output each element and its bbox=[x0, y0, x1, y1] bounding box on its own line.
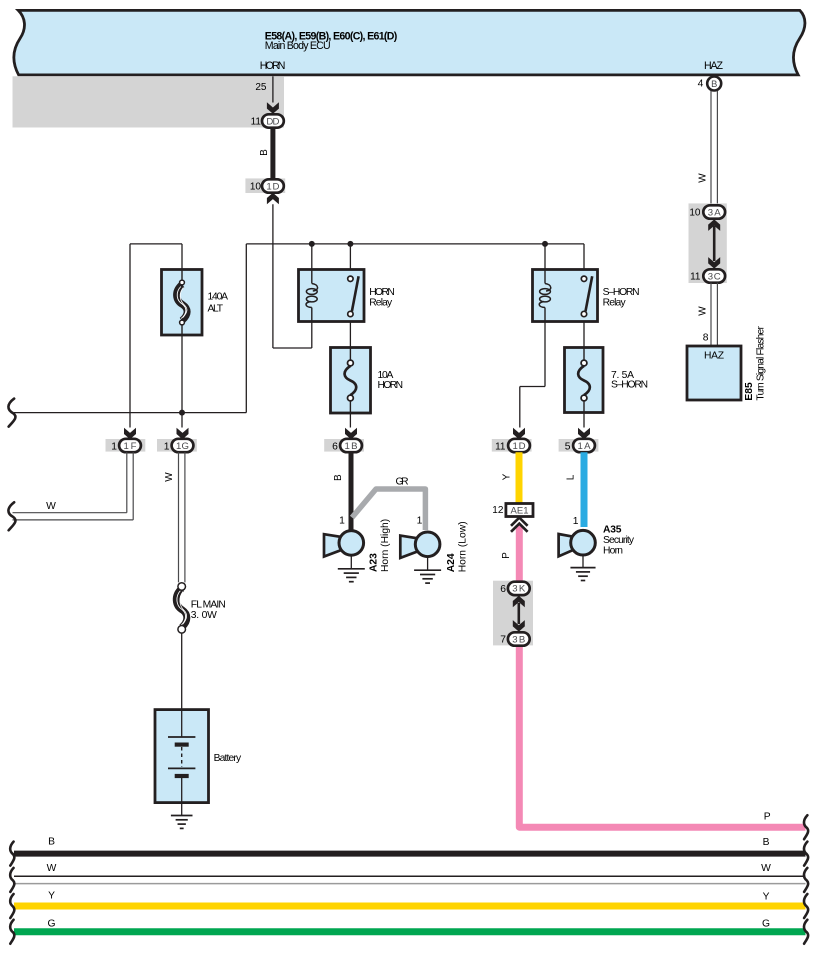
svg-text:1: 1 bbox=[417, 515, 423, 526]
svg-text:W: W bbox=[698, 173, 709, 183]
svg-text:W: W bbox=[46, 501, 56, 512]
svg-text:B: B bbox=[763, 837, 770, 848]
svg-text:AE1: AE1 bbox=[511, 505, 529, 516]
svg-text:W: W bbox=[164, 472, 175, 482]
svg-text:FL MAIN: FL MAIN bbox=[191, 599, 226, 610]
svg-text:Y: Y bbox=[502, 473, 513, 480]
svg-text:Y: Y bbox=[763, 892, 770, 903]
svg-text:A23: A23 bbox=[369, 553, 380, 572]
svg-text:Y: Y bbox=[48, 891, 55, 902]
svg-text:3K: 3K bbox=[512, 584, 526, 595]
svg-text:Relay: Relay bbox=[369, 297, 393, 308]
svg-text:6: 6 bbox=[500, 584, 506, 595]
svg-text:HORN: HORN bbox=[260, 60, 286, 72]
svg-text:1D: 1D bbox=[513, 441, 526, 452]
svg-text:HAZ: HAZ bbox=[704, 351, 724, 362]
svg-text:1: 1 bbox=[573, 516, 579, 527]
svg-text:B: B bbox=[333, 474, 344, 481]
svg-text:HAZ: HAZ bbox=[704, 60, 724, 72]
svg-text:G: G bbox=[762, 919, 770, 930]
svg-text:Battery: Battery bbox=[214, 753, 242, 764]
svg-text:1: 1 bbox=[339, 515, 345, 526]
svg-text:P: P bbox=[764, 812, 771, 823]
svg-text:4: 4 bbox=[698, 79, 704, 90]
svg-text:P: P bbox=[501, 552, 512, 559]
svg-text:ALT: ALT bbox=[208, 304, 224, 315]
svg-text:5: 5 bbox=[565, 441, 571, 452]
svg-text:E85: E85 bbox=[744, 382, 755, 401]
svg-text:HORN: HORN bbox=[378, 380, 404, 391]
svg-text:B: B bbox=[259, 149, 270, 156]
svg-text:B: B bbox=[711, 79, 717, 89]
svg-text:Horn: Horn bbox=[603, 546, 623, 557]
svg-text:10: 10 bbox=[689, 207, 701, 218]
svg-text:L: L bbox=[566, 474, 577, 480]
svg-text:11: 11 bbox=[251, 117, 262, 128]
svg-text:Horn (High): Horn (High) bbox=[380, 519, 391, 572]
svg-text:3A: 3A bbox=[708, 207, 722, 218]
svg-text:12: 12 bbox=[492, 505, 504, 516]
svg-text:140A: 140A bbox=[208, 292, 229, 303]
svg-text:G: G bbox=[47, 919, 55, 930]
svg-text:DD: DD bbox=[266, 116, 279, 127]
svg-text:A35: A35 bbox=[603, 524, 622, 535]
svg-text:3B: 3B bbox=[512, 634, 525, 645]
svg-text:1: 1 bbox=[164, 441, 170, 452]
svg-text:A24: A24 bbox=[446, 553, 457, 572]
svg-text:1F: 1F bbox=[124, 441, 137, 452]
svg-text:1D: 1D bbox=[266, 181, 279, 192]
svg-text:1: 1 bbox=[111, 441, 117, 452]
svg-text:W: W bbox=[761, 863, 771, 874]
svg-text:1B: 1B bbox=[345, 441, 358, 452]
svg-text:3C: 3C bbox=[708, 271, 721, 282]
svg-text:3. 0W: 3. 0W bbox=[191, 610, 217, 621]
svg-text:11: 11 bbox=[495, 441, 506, 452]
svg-text:Horn (Low): Horn (Low) bbox=[458, 521, 469, 572]
svg-text:W: W bbox=[47, 863, 57, 874]
svg-text:Main Body ECU: Main Body ECU bbox=[265, 40, 331, 52]
svg-text:Relay: Relay bbox=[603, 297, 627, 308]
svg-text:W: W bbox=[698, 306, 709, 316]
svg-text:10: 10 bbox=[250, 182, 262, 193]
svg-text:7: 7 bbox=[500, 634, 506, 645]
svg-text:6: 6 bbox=[332, 441, 338, 452]
svg-text:B: B bbox=[48, 837, 55, 848]
svg-text:GR: GR bbox=[396, 476, 409, 487]
svg-text:11: 11 bbox=[690, 271, 701, 282]
svg-text:1G: 1G bbox=[176, 441, 189, 452]
svg-text:S–HORN: S–HORN bbox=[611, 380, 648, 391]
svg-text:8: 8 bbox=[703, 333, 709, 344]
svg-text:25: 25 bbox=[255, 82, 267, 93]
svg-text:Turn Signal Flasher: Turn Signal Flasher bbox=[756, 326, 767, 401]
svg-text:1A: 1A bbox=[578, 441, 592, 452]
